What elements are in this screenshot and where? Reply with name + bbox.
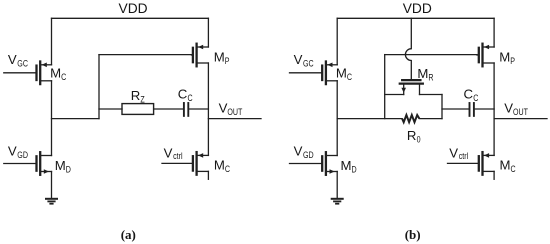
svg-text:M: M <box>336 65 347 80</box>
svg-text:OUT: OUT <box>513 106 528 117</box>
wire: VDD to M_C source <box>336 18 338 65</box>
svg-text:R: R <box>407 128 417 143</box>
wire: middle vertical up to M_P gate line <box>98 55 100 119</box>
svg-text:V: V <box>294 52 303 67</box>
svg-text:OUT: OUT <box>227 106 242 117</box>
wire: VDD down to M_R gate with hop over <box>405 18 411 79</box>
svg-text:ctrl: ctrl <box>459 150 469 161</box>
wire: C_C to output rail <box>475 108 495 110</box>
svg-text:C: C <box>188 92 193 103</box>
wire: M_C lower stub <box>493 171 495 179</box>
svg-text:D: D <box>352 163 357 174</box>
svg-text:C: C <box>464 87 474 102</box>
svg-text:GC: GC <box>303 57 314 68</box>
svg-text:0: 0 <box>417 133 421 144</box>
transistor M_P (PMOS, top-right) <box>477 44 494 67</box>
svg-text:C: C <box>225 163 230 174</box>
transistor M_D (NMOS, bottom-left) <box>4 152 52 175</box>
resistor R_0 zigzag <box>402 115 419 122</box>
svg-text:(a): (a) <box>121 227 136 242</box>
wire: M_P drain down through V_OUT node to M_C <box>493 63 495 155</box>
svg-text:(b): (b) <box>405 227 421 242</box>
wire: M_C drain down to M_D drain <box>51 81 53 156</box>
node A: wire to compensation network <box>52 118 100 120</box>
svg-text:M: M <box>214 158 225 173</box>
VDD rail <box>52 17 209 19</box>
svg-text:C: C <box>473 92 478 103</box>
VDD rail <box>337 17 494 19</box>
wire: M_C lower stub <box>207 171 209 179</box>
svg-text:M: M <box>214 50 225 65</box>
svg-text:M: M <box>341 158 352 173</box>
wire: M_D source to ground <box>51 172 53 199</box>
wire: network to C_C <box>442 108 469 110</box>
ground <box>46 199 57 204</box>
wire: M_P drain down through V_OUT node to M_C <box>207 63 209 155</box>
wire: node to resistor R_Z <box>99 108 122 110</box>
svg-text:VDD: VDD <box>119 1 148 16</box>
wire: R_Z to C_C <box>154 108 183 110</box>
capacitor C_C <box>184 103 188 116</box>
wire: M_C drain down to M_D drain <box>336 81 338 156</box>
wire: C_C to output rail <box>189 108 208 110</box>
wire: V_OUT output <box>208 118 261 120</box>
wire: VDD to M_P source <box>207 18 209 47</box>
svg-text:R: R <box>131 88 141 103</box>
svg-text:VDD: VDD <box>403 1 432 16</box>
wire: to M_P gate <box>99 54 192 56</box>
svg-text:GD: GD <box>17 149 28 160</box>
transistor M_D (NMOS, bottom-left) <box>290 152 338 175</box>
wire: network top line to M_P gate <box>385 54 477 56</box>
svg-text:M: M <box>55 158 66 173</box>
transistor M_C (PMOS, top-left) <box>4 62 52 85</box>
wire: VDD to M_C source <box>51 18 53 65</box>
transistor M_P (PMOS, top-right) <box>192 44 209 67</box>
transistor M_R (horizontal, gate up) <box>385 80 442 94</box>
wire: VDD to M_P source <box>493 18 495 47</box>
wire: M_D source to ground <box>336 172 338 199</box>
svg-text:C: C <box>61 71 66 82</box>
resistor R_Z <box>122 104 154 115</box>
svg-text:P: P <box>225 55 230 66</box>
wire: V_OUT output <box>494 118 547 120</box>
svg-text:C: C <box>511 163 516 174</box>
svg-text:ctrl: ctrl <box>173 150 183 161</box>
svg-text:V: V <box>8 144 17 159</box>
svg-text:M: M <box>499 50 510 65</box>
svg-text:M: M <box>50 65 61 80</box>
svg-text:M: M <box>417 66 428 81</box>
wire: R_0 to right vertical <box>419 118 442 120</box>
wire: right vertical of network <box>441 95 443 119</box>
ground <box>332 199 343 204</box>
svg-text:P: P <box>510 55 515 66</box>
svg-text:GD: GD <box>303 149 314 160</box>
wire: left vertical of network <box>384 55 386 119</box>
transistor M_C (bottom-right, V_ctrl) <box>448 152 495 175</box>
transistor M_C (bottom-right, V_ctrl) <box>162 152 208 175</box>
transistor M_C (PMOS, top-left) <box>290 62 338 85</box>
svg-text:V: V <box>164 146 173 161</box>
svg-text:V: V <box>504 101 513 116</box>
svg-text:M: M <box>500 158 511 173</box>
capacitor C_C <box>470 103 474 116</box>
svg-text:V: V <box>449 146 458 161</box>
svg-text:C: C <box>347 71 352 82</box>
svg-text:R: R <box>428 71 433 82</box>
node line through R_0 (left part) <box>337 118 402 120</box>
svg-text:GC: GC <box>17 57 28 68</box>
svg-text:D: D <box>66 163 71 174</box>
svg-text:Z: Z <box>140 93 144 104</box>
svg-text:V: V <box>219 101 228 116</box>
svg-text:C: C <box>178 87 188 102</box>
svg-text:V: V <box>8 52 17 67</box>
svg-text:V: V <box>294 144 303 159</box>
